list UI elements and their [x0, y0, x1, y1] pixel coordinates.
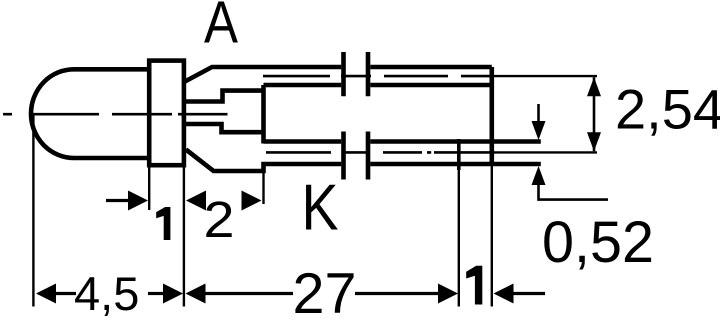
- inner lead step upper (exits flange): [184, 91, 264, 102]
- dimension 1 (right) arrow from outside: [494, 284, 546, 304]
- extension line below inner step: [262, 171, 264, 204]
- svg-text:2: 2: [204, 191, 235, 248]
- dimension 2 right arrow (points right at step edge): [242, 191, 262, 211]
- extension line for dimension 1 (right), upper thick part: [457, 139, 461, 170]
- anode lead A top edge (diagonal from flange then horizontal to break): [185, 67, 342, 82]
- dimension 0,52 upper arrow (points down at lead top edge): [532, 104, 546, 140]
- dimension text 1 (lead end): [466, 266, 482, 305]
- lead end cap at right: [489, 67, 494, 166]
- cathode lead K bottom edge (diagonal from flange, step, to break): [186, 150, 341, 172]
- cathode lead centerline (dash-dot): [266, 151, 491, 154]
- dimension 27 line with arrows: [186, 284, 459, 304]
- dimension 0,52 lower arrow with leader (points up at lead bottom edge): [532, 166, 609, 200]
- inner vertical joining leads (big step edge): [261, 85, 266, 144]
- anode lead A bottom edge right of break: [370, 83, 492, 88]
- extension line from flange left edge: [148, 166, 150, 210]
- break mark bars, anode lead: [344, 52, 369, 96]
- svg-text:2,54: 2,54: [615, 78, 720, 141]
- inner lead step lower (exits flange): [184, 124, 264, 132]
- svg-text:27: 27: [293, 262, 357, 325]
- extension line below lead end: [491, 166, 493, 307]
- dimension 2 left arrow (points left at flange edge): [186, 191, 206, 211]
- LED dome (epoxy lens, left cap): [31, 69, 149, 158]
- LED flange (base rim): [149, 61, 184, 166]
- cathode lead centerline extension to 2,54 arrow: [492, 151, 597, 153]
- svg-text:4,5: 4,5: [74, 267, 139, 320]
- anode lead A bottom edge (from inner step to break): [264, 83, 342, 88]
- extension line for dimension 1 (right): [458, 168, 460, 307]
- dimension text 1 (flange thickness): [156, 207, 170, 240]
- anode lead A top edge right of break: [370, 65, 492, 70]
- extension line from flange right edge: [183, 166, 185, 307]
- svg-text:A: A: [204, 0, 239, 56]
- break mark bars, cathode lead: [344, 132, 369, 180]
- svg-text:K: K: [302, 171, 339, 243]
- cathode lead K top edge (to break): [264, 139, 342, 144]
- package axis centerline (dash-dot): [3, 113, 228, 116]
- dimension line 1 (flange) left arrow: [106, 191, 148, 211]
- anode lead centerline (dash-dot): [263, 75, 491, 78]
- anode lead centerline extension to 2,54 arrow: [492, 75, 597, 77]
- dimension 4,5 line with outward arrows: [36, 284, 183, 304]
- cathode lead K bottom edge right of break, extended as 0,52 reference: [370, 162, 541, 167]
- cathode lead K top edge right of break, extended as 0,52 reference: [370, 139, 541, 144]
- dimension 2,54 arrow (vertical double arrow): [587, 77, 601, 151]
- svg-text:0,52: 0,52: [542, 210, 654, 275]
- extension line from dome left point: [32, 113, 34, 306]
